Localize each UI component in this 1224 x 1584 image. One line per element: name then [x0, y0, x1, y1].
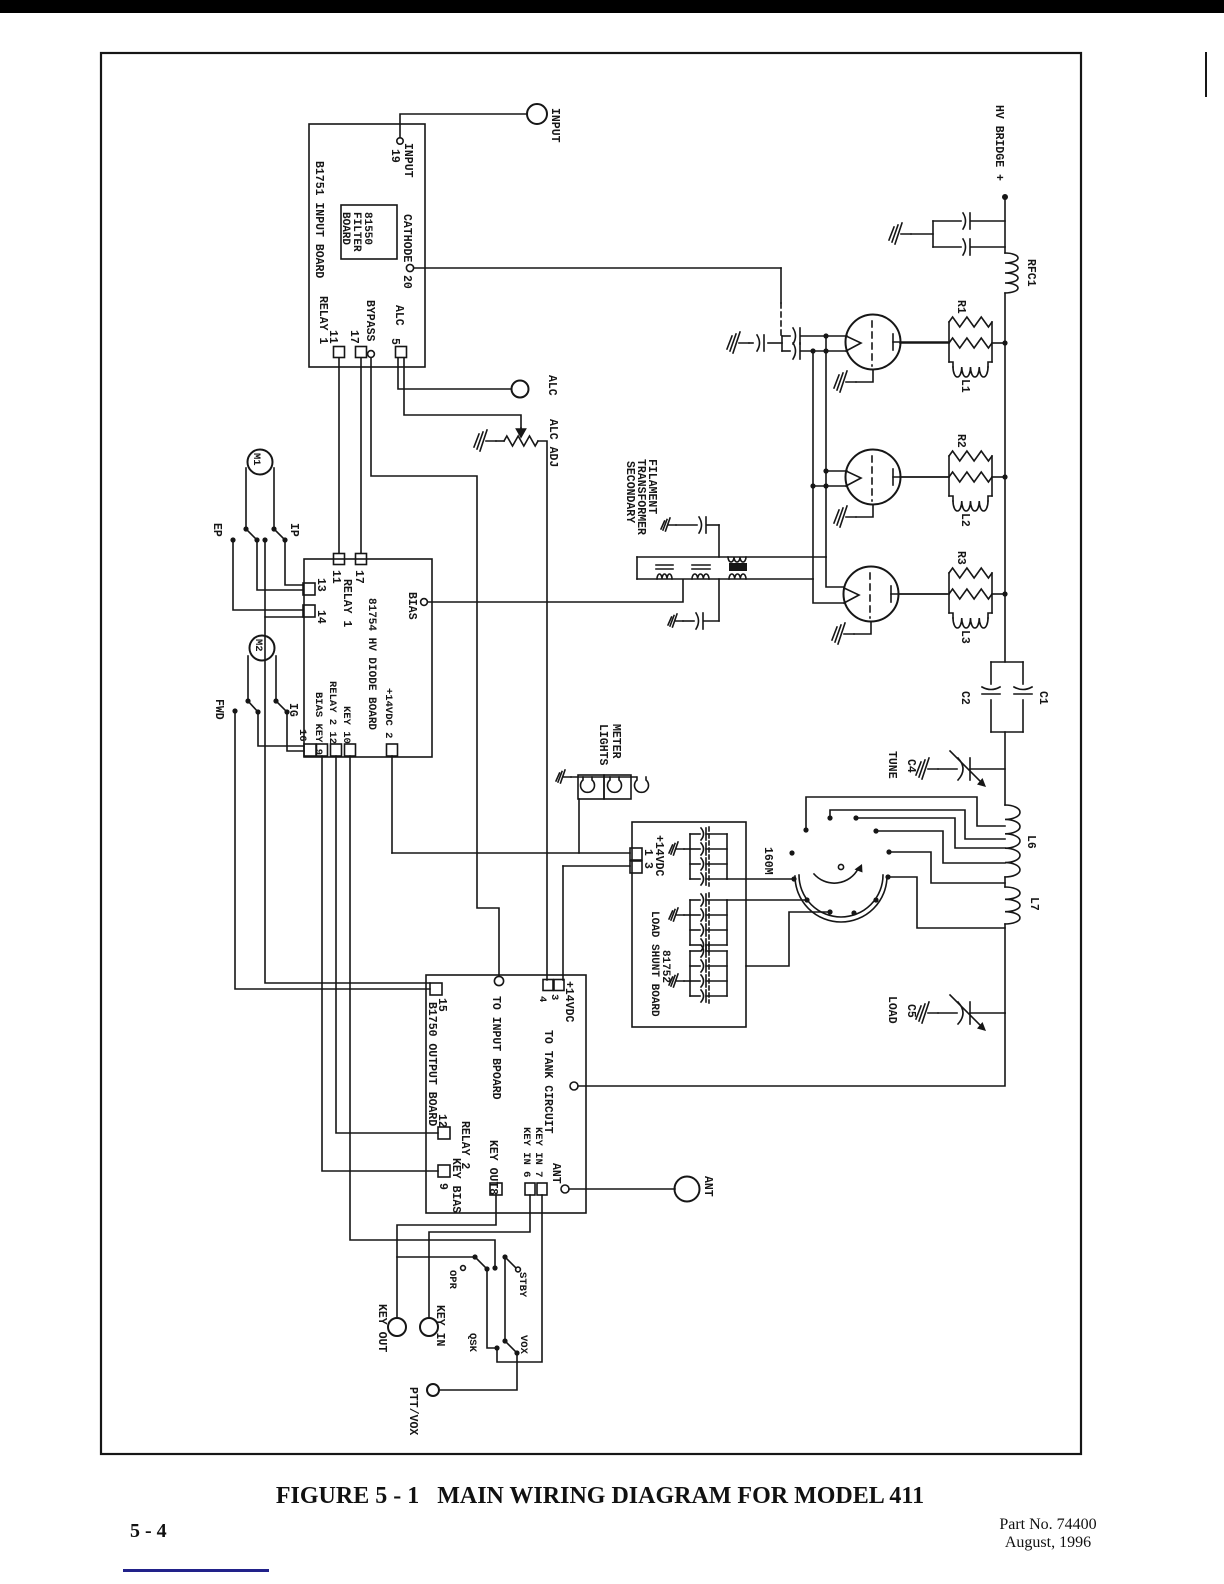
diode board pin 9 — [317, 744, 328, 756]
wire switch contact to L6 tap 1 — [806, 797, 1005, 830]
power tube V at (873,342) — [846, 315, 901, 370]
svg-text:LOAD: LOAD — [885, 996, 898, 1024]
wire M2 contact to diode board pin 16 — [258, 712, 304, 746]
svg-text:ALC ADJ: ALC ADJ — [546, 419, 559, 467]
capacitor C1 — [1014, 687, 1032, 690]
svg-text:+14VDC: +14VDC — [652, 835, 665, 877]
svg-text:R1: R1 — [954, 300, 967, 314]
wire switch contact to L6 tap 5 — [889, 852, 1005, 883]
svg-text:13: 13 — [314, 578, 327, 592]
tank coil L6 — [1005, 805, 1020, 877]
svg-text:ALC: ALC — [545, 375, 558, 396]
wire pin 6 to KEY IN terminal — [429, 1195, 530, 1318]
svg-text:L1: L1 — [958, 379, 971, 393]
transformer bottom windings — [657, 574, 672, 579]
HV bus wire — [1004, 197, 1006, 253]
svg-text:OPR: OPR — [446, 1270, 458, 1290]
svg-text:14: 14 — [314, 610, 327, 624]
svg-text:INPUT: INPUT — [548, 108, 561, 143]
svg-text:IG: IG — [286, 703, 299, 717]
capacitor C2 — [982, 687, 1000, 690]
wire BYPASS pin to output board TO INPUT pin — [371, 358, 499, 976]
svg-text:R2: R2 — [954, 434, 967, 448]
page number 5-4 — [130, 1520, 167, 1543]
svg-text:ANT: ANT — [549, 1163, 562, 1184]
svg-text:C5: C5 — [904, 1004, 917, 1018]
wire IP contact to diode board pin 13 — [285, 540, 303, 585]
wire pin 9 to output board pin 9 — [322, 756, 438, 1171]
diode board pin 16 — [304, 744, 316, 756]
tube cathode ground wire — [856, 505, 873, 518]
output board pin 9 KEY BIAS — [438, 1165, 450, 1177]
wire M1/FWD bus down to output board pin 15 — [265, 617, 430, 983]
svg-text:+14VDC 2: +14VDC 2 — [382, 688, 394, 738]
wire input terminal to board pin 19 — [400, 114, 527, 137]
svg-text:BOARD: BOARD — [339, 212, 351, 245]
svg-text:PTT/VOX: PTT/VOX — [406, 1387, 419, 1435]
svg-text:SECONDARY: SECONDARY — [623, 461, 636, 523]
svg-text:TO INPUT BPOARD: TO INPUT BPOARD — [489, 996, 502, 1100]
diode board pin 14 — [303, 605, 315, 617]
figure caption — [0, 1483, 1212, 1510]
wire load shunt pin 3 to output board pin 4 — [563, 865, 630, 867]
svg-text:160M: 160M — [761, 847, 774, 875]
shielded cable dashed segment — [780, 303, 782, 336]
svg-text:81754 HV DIODE BOARD: 81754 HV DIODE BOARD — [365, 598, 377, 730]
svg-text:M2: M2 — [252, 639, 264, 652]
QSK/VOX switch pole 2 blade — [502, 1338, 507, 1343]
tube cathode ground wire — [856, 370, 873, 383]
band switch hub — [838, 864, 843, 869]
diode board pin 12 — [331, 744, 342, 756]
svg-text:L3: L3 — [958, 630, 971, 644]
load shunt pin 3 — [630, 861, 642, 873]
wire tank bottom to TO TANK CIRCUIT pin — [578, 1013, 1005, 1086]
wire switch contact to L6 tap 3 — [856, 818, 1005, 848]
tube plate — [890, 586, 892, 602]
wire IG contact to diode board pin 16 — [287, 712, 304, 751]
output board pin 6 KEY IN — [525, 1183, 535, 1195]
wire BIAS to filament transformer secondary — [428, 580, 683, 602]
svg-text:BIAS KEY 9: BIAS KEY 9 — [312, 692, 324, 755]
svg-text:12: 12 — [435, 1114, 448, 1128]
wire FWD to output board pin 15 — [235, 711, 430, 989]
output board pin 12 RELAY 2 — [438, 1127, 450, 1139]
wire switch pole1 to QSK contact — [487, 1269, 497, 1348]
wire pin 10 to OPR/STBY switch contact — [350, 756, 495, 1266]
svg-text:L6: L6 — [1024, 835, 1037, 849]
diode board pin 17 — [356, 554, 367, 565]
svg-text:19: 19 — [388, 149, 401, 163]
ground at filament bypass upper — [661, 518, 676, 531]
filter board 81550 inner box — [341, 205, 397, 259]
svg-text:ALC: ALC — [392, 305, 405, 326]
ground at tube cathode — [832, 623, 854, 644]
wire grid V2 upper — [826, 470, 847, 472]
output board pin 3 — [543, 980, 553, 991]
load shunt capacitor group — [689, 834, 691, 879]
wire pin 12 to output board pin 12 — [336, 756, 438, 1133]
resistor R2 / inductor L2 network — [900, 476, 949, 478]
diode board pin 10 — [345, 744, 356, 756]
grid resistor leg capacitor to ground — [768, 342, 782, 344]
svg-text:9: 9 — [436, 1183, 449, 1190]
transformer core laminations — [656, 564, 673, 566]
filament rail B lower jog to tube V3 — [813, 579, 844, 603]
svg-text:RFC1: RFC1 — [1024, 259, 1037, 287]
svg-text:RELAY 2 12: RELAY 2 12 — [326, 681, 338, 744]
svg-text:ANT: ANT — [701, 1176, 714, 1197]
+14VDC rail branch wire to output board pins 3 — [562, 866, 564, 980]
tank coil L7 — [1005, 887, 1020, 924]
ground at load shunt group — [684, 980, 690, 982]
wire grid V2 lower — [813, 485, 847, 487]
load shunt capacitor group — [689, 951, 691, 996]
wire pin 7 to QSK wire — [497, 1195, 542, 1362]
svg-text:KEY IN: KEY IN — [433, 1305, 446, 1347]
meter M2 — [250, 636, 275, 661]
output board pin 7 KEY IN — [537, 1183, 547, 1195]
M2 switch blades and contacts — [245, 698, 250, 703]
ground at meter lights — [556, 770, 571, 783]
svg-text:STBY: STBY — [516, 1272, 528, 1298]
diode board pin 11 — [334, 554, 345, 565]
ground at filament bypass lower — [668, 614, 683, 627]
svg-text:C1: C1 — [1036, 691, 1049, 705]
wire EP contact to diode board pin 14 — [233, 540, 303, 610]
svg-text:B1751 INPUT BOARD: B1751 INPUT BOARD — [312, 161, 325, 278]
ground at C5 — [916, 1002, 938, 1023]
svg-text:5: 5 — [388, 338, 401, 345]
svg-text:FWD: FWD — [212, 699, 225, 720]
svg-text:TUNE: TUNE — [885, 751, 898, 779]
M2 leads — [247, 656, 249, 701]
band switch rotor arrow — [814, 869, 858, 883]
svg-text:KEY OUT8: KEY OUT8 — [486, 1140, 499, 1195]
wire VOX contact to PTT/VOX terminal — [440, 1353, 517, 1390]
wire ANT pin to ANT terminal — [569, 1188, 675, 1190]
filament rail B wire (tubes grid lower) — [812, 351, 814, 579]
scan artifact line at top right — [1205, 53, 1207, 96]
wire M1 contact to diode board pin 14 — [265, 540, 303, 617]
svg-text:4: 4 — [536, 996, 548, 1002]
junction dots tube V1 grid wires — [810, 348, 815, 353]
potentiometer ALC ADJ R-ALC — [504, 436, 538, 446]
wire pin 2 +14VDC down to +14VDC rail — [391, 756, 393, 853]
+14VDC rail wire to load shunt board pin 1 — [392, 852, 630, 854]
wire cathode pin 20 to tube grid coupling — [414, 267, 781, 269]
STBY contact — [516, 1267, 521, 1272]
blue footer rule — [123, 1569, 269, 1572]
OPR/STBY switch pole 2 blade — [502, 1254, 507, 1259]
svg-text:KEY OUT: KEY OUT — [375, 1304, 388, 1352]
wire switch contact to L6 tap 4 — [876, 831, 1005, 863]
wire M1 contact to diode board pin 13 — [257, 540, 303, 590]
wire pin 17 to HV diode board pin 17 — [360, 358, 362, 553]
HV bridge capacitor bracket and ground stub — [932, 221, 934, 247]
KEY IN terminal — [420, 1318, 438, 1336]
ground at tube cathode — [834, 371, 856, 392]
meter lights sockets — [578, 775, 604, 799]
resistor R1 / inductor L1 network — [900, 342, 949, 344]
svg-text:15: 15 — [435, 998, 448, 1012]
tube coupling capacitors from cathode line — [781, 336, 783, 351]
svg-text:QSK: QSK — [466, 1333, 478, 1353]
part number block — [963, 1516, 1133, 1552]
svg-text:METER: METER — [609, 724, 622, 759]
svg-text:+14VDC: +14VDC — [562, 981, 575, 1023]
svg-text:17: 17 — [347, 330, 360, 344]
svg-text:EP: EP — [210, 523, 223, 537]
coupling capacitor C-grid-1 upper — [782, 335, 790, 337]
power tube V at (873,477) — [846, 450, 901, 505]
svg-text:TO TANK CIRCUIT: TO TANK CIRCUIT — [541, 1030, 554, 1134]
filament transformer T1 secondary — [637, 556, 826, 558]
HV diode board 81754 — [304, 559, 432, 757]
svg-text:KEY BIAS: KEY BIAS — [449, 1158, 462, 1213]
tube cathode ground wire — [854, 622, 871, 635]
filament bypass capacitor upper — [676, 524, 697, 526]
svg-text:L2: L2 — [958, 513, 971, 527]
top scan bar — [0, 0, 1224, 13]
output board B1750 — [426, 975, 586, 1213]
wire load shunt group 3 to switch contact — [746, 912, 830, 966]
output board pin 15 — [430, 983, 442, 995]
output board pin 8 KEY OUT — [490, 1183, 502, 1195]
load shunt capacitor group — [689, 900, 691, 945]
svg-text:HV BRIDGE +: HV BRIDGE + — [992, 105, 1005, 181]
svg-text:20: 20 — [400, 275, 413, 289]
OPR contact — [461, 1266, 466, 1271]
coupling capacitor C-grid-1 lower — [782, 350, 790, 352]
plate blocking capacitor bank C1 C2 box — [991, 661, 1023, 663]
pin 17 square — [356, 347, 367, 358]
band switch contact dots — [791, 876, 796, 881]
ALC ADJ wiper arrow — [517, 428, 526, 437]
ANT terminal — [675, 1177, 700, 1202]
svg-text:LIGHTS: LIGHTS — [596, 724, 609, 766]
ground at ALC ADJ — [496, 440, 504, 442]
wire pin 11 to HV diode board pin 11 — [338, 358, 340, 553]
wire switch contact to L7 bottom tap — [888, 877, 1005, 928]
svg-text:M1: M1 — [250, 453, 262, 466]
HV bridge bypass capacitor C upper — [933, 220, 961, 222]
transformer top winding — [728, 557, 746, 562]
HV bridge bypass capacitor C lower — [933, 246, 961, 248]
input terminal J1 — [527, 104, 547, 124]
ground at load shunt group — [684, 914, 690, 916]
ALC terminal — [512, 381, 529, 398]
svg-text:KEY IN 6: KEY IN 6 — [520, 1127, 532, 1177]
wire load shunt group 2 to switch contact — [727, 899, 807, 901]
svg-text:11: 11 — [326, 330, 339, 344]
svg-text:KEY 10: KEY 10 — [340, 706, 352, 744]
load shunt board 81752 — [632, 822, 746, 1027]
diode board pin 13 — [303, 583, 315, 595]
ground at HV bridge capacitors — [889, 223, 911, 244]
svg-text:INPUT: INPUT — [401, 143, 414, 178]
filament bypass capacitor lower — [683, 620, 694, 622]
pin 19 INPUT on input board — [397, 138, 403, 144]
svg-text:KEY IN 7: KEY IN 7 — [532, 1127, 544, 1177]
output board pin ANT — [561, 1185, 569, 1193]
svg-text:R3: R3 — [954, 551, 967, 565]
output board pin 4 — [554, 980, 564, 991]
wire pin 5 to ALC ADJ wiper — [404, 358, 521, 428]
M1 switch blades and contacts — [243, 526, 248, 531]
KEY OUT terminal — [388, 1318, 406, 1336]
svg-text:C4: C4 — [904, 759, 917, 773]
input board B1751 — [309, 124, 425, 367]
ground at load shunt group — [684, 848, 690, 850]
power tube V at (871,594) — [844, 567, 899, 622]
svg-text:LOAD SHUNT BOARD: LOAD SHUNT BOARD — [648, 911, 660, 1017]
resistor R3 / inductor L3 network — [900, 593, 949, 595]
svg-text:RELAY 1: RELAY 1 — [340, 579, 353, 627]
svg-text:CATHODE: CATHODE — [400, 214, 413, 262]
filament rail A lower jog to tube V3 — [826, 557, 844, 587]
svg-text:L7: L7 — [1027, 897, 1040, 911]
M1 leads — [245, 468, 247, 529]
svg-text:BIAS: BIAS — [405, 592, 418, 620]
svg-text:C2: C2 — [958, 691, 971, 705]
wire C1/C2 to tune node — [1004, 732, 1006, 805]
OPR/STBY switch pole 1 blade — [472, 1254, 477, 1259]
meter M1 — [248, 450, 273, 475]
ground at C4 — [916, 758, 938, 779]
svg-text:16: 16 — [296, 729, 308, 742]
wire pin 8 to KEY OUT terminal — [397, 1195, 496, 1318]
wire pin 5 to ALC terminal — [398, 358, 511, 389]
pin 11 square — [334, 347, 345, 358]
svg-text:3: 3 — [548, 994, 560, 1000]
svg-text:B1750 OUTPUT BOARD: B1750 OUTPUT BOARD — [425, 1002, 438, 1126]
ground at tube cathode — [834, 506, 856, 527]
wire KEY OUT line to OPR/STBY switch common — [397, 1256, 475, 1258]
wire switch contact to L6 tap 2 — [830, 810, 1005, 839]
svg-text:BYPASS: BYPASS — [363, 300, 376, 342]
output board pin TO INPUT BOARD — [494, 976, 503, 985]
wire ALC ADJ to +14VDC rail / output board pin 3 — [538, 441, 547, 980]
tube plate — [892, 334, 894, 350]
ground at tube 1 input — [727, 332, 749, 353]
wire meter lights to +14VDC rail — [578, 799, 580, 853]
wire switch pole2 to VOX blade — [504, 1257, 506, 1341]
svg-text:IP: IP — [287, 523, 300, 537]
filament rail A wire (tubes grid upper) — [825, 336, 827, 557]
RF choke RFC1 — [1005, 253, 1018, 293]
HV bus wire RFC1 to tank — [1004, 293, 1006, 662]
load shunt pin 1 — [630, 848, 642, 860]
wire load shunt group 1 to switch contact — [727, 878, 794, 880]
diode board pin 2 +14VDC — [387, 744, 398, 756]
border frame — [101, 53, 1081, 1454]
svg-text:VOX: VOX — [517, 1335, 529, 1355]
tube plate — [892, 469, 894, 485]
PTT/VOX terminal — [427, 1384, 439, 1396]
